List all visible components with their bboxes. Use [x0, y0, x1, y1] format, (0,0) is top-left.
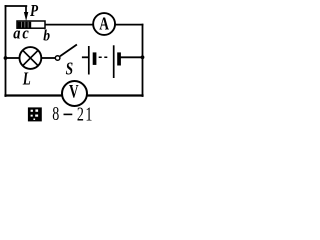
wire switch to battery — [83, 56, 88, 58]
svg-text:21: 21 — [77, 103, 94, 125]
svg-text:8: 8 — [52, 103, 59, 125]
caption character tu (figure) — [28, 107, 42, 121]
svg-text:b: b — [43, 27, 50, 44]
caption dash — [64, 113, 73, 115]
switch hinge contact — [55, 56, 60, 61]
switch lever — [60, 45, 77, 57]
wire left vertical — [5, 6, 7, 96]
rheostat body (box) — [17, 21, 45, 28]
wire ammeter to top-right corner — [116, 24, 143, 26]
svg-text:V: V — [69, 83, 79, 103]
wire bottom horizontal — [6, 94, 143, 96]
wire battery to right vertical — [121, 56, 143, 58]
wire lamp to switch — [42, 57, 56, 59]
lamp circle — [20, 47, 42, 69]
voltmeter circle — [62, 81, 87, 106]
battery cell 1 long plate — [88, 46, 90, 75]
wire right vertical — [142, 25, 144, 96]
rheostat used winding a-c (dark fill) — [18, 22, 32, 28]
potentiometer slider arrowhead — [24, 12, 28, 21]
svg-text:L: L — [22, 70, 31, 89]
wire lamp row left — [6, 57, 20, 59]
potentiometer slider stem — [25, 6, 27, 13]
battery cell 2 long plate — [113, 45, 115, 78]
wire rheostat to ammeter — [45, 24, 93, 26]
battery cell 2 short thick plate — [117, 52, 121, 65]
svg-text:S: S — [66, 60, 74, 79]
battery continuation dashes — [99, 56, 108, 58]
lamp cross — [23, 50, 38, 65]
ammeter circle — [93, 13, 115, 35]
wire top horizontal to slider — [6, 5, 27, 7]
svg-text:a: a — [13, 24, 20, 42]
svg-text:A: A — [99, 15, 109, 34]
svg-text:c: c — [22, 24, 28, 42]
battery cell 1 short thick plate — [93, 52, 97, 65]
junction dot left (lamp branch) — [4, 56, 8, 60]
svg-text:P: P — [30, 2, 39, 21]
junction dot right (battery to right wire) — [141, 55, 145, 59]
